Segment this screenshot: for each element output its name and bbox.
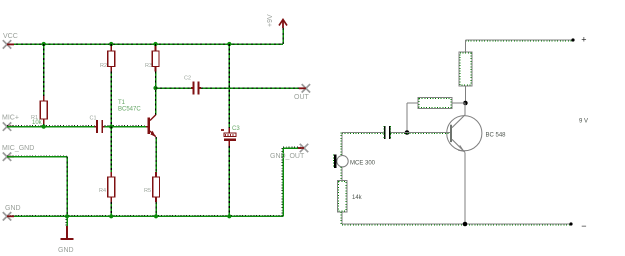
- node MIC+ pin: [2, 115, 19, 131]
- ground symbol: [58, 226, 74, 254]
- capacitor C2: [184, 76, 201, 95]
- wire supply + rail: [465, 40, 573, 41]
- node OUT pin: [294, 84, 310, 101]
- svg-text:C2: C2: [184, 76, 191, 82]
- svg-text:R2: R2: [100, 63, 107, 69]
- wire emitter to R5: [155, 137, 157, 172]
- node GND pin: [3, 205, 21, 221]
- transistor T1 BC547C: [118, 100, 156, 137]
- svg-text:T1: T1: [118, 100, 126, 106]
- supply symbol +9V: [267, 14, 287, 28]
- wire supply riser: [282, 28, 284, 44]
- svg-text:MIC_GND: MIC_GND: [2, 145, 34, 152]
- wire R2 to base node: [110, 72, 112, 127]
- svg-text:C3: C3: [232, 126, 240, 132]
- svg-text:9 V: 9 V: [579, 119, 588, 125]
- junction base node: [405, 130, 410, 135]
- feedback resistor: [407, 98, 465, 109]
- wire 14k to ground rail: [341, 212, 342, 224]
- svg-text:MCE 300: MCE 300: [350, 161, 376, 167]
- svg-text:−: −: [581, 221, 586, 231]
- microphone MCE 300: [334, 155, 376, 168]
- coupling capacitor: [384, 126, 391, 139]
- wire R5 to ground rail: [155, 202, 157, 216]
- junction MIC+ R2 column: [109, 125, 113, 129]
- svg-text:BC547C: BC547C: [118, 107, 141, 113]
- wire C3 to ground rail: [228, 146, 230, 216]
- wire OUT line left: [156, 87, 192, 89]
- svg-text:10k: 10k: [32, 120, 43, 126]
- junction collector node: [463, 101, 468, 106]
- svg-text:GND: GND: [5, 205, 21, 212]
- junction top rail R3 column: [153, 42, 157, 46]
- wire R1 column upper: [43, 44, 45, 96]
- junction MIC+ R1: [42, 125, 46, 129]
- wire OUT line right: [201, 87, 302, 89]
- wire gnd rail riser right: [282, 148, 283, 216]
- wire C3 column upper: [228, 44, 230, 128]
- junction gnd rail R4: [109, 214, 113, 218]
- capacitor C3: [221, 126, 240, 146]
- svg-text:GND: GND: [58, 247, 74, 254]
- svg-text:R5: R5: [144, 188, 151, 194]
- wire ground rail: [7, 215, 283, 216]
- svg-text:+9V: +9V: [267, 14, 274, 27]
- + terminal: [571, 35, 586, 45]
- wire VCC top rail: [7, 43, 283, 45]
- wire GND_OUT line: [283, 147, 301, 148]
- collector resistor: [459, 52, 472, 86]
- svg-text:+: +: [581, 35, 586, 45]
- svg-text:R4: R4: [99, 188, 106, 194]
- wire base node to R4: [110, 127, 112, 172]
- resistor R5: [144, 172, 159, 202]
- svg-text:GND_OUT: GND_OUT: [270, 153, 305, 160]
- node VCC pin: [3, 33, 18, 49]
- - terminal: [569, 221, 586, 231]
- wire MIC+ line left: [7, 126, 95, 127]
- wire collector resistor top lead: [464, 40, 466, 52]
- wire base line left segment: [342, 133, 384, 134]
- wire collector to junction: [464, 103, 466, 115]
- wire feedback to base junction: [406, 103, 408, 133]
- wire mic to 14k resistor: [341, 167, 342, 181]
- svg-text:MIC+: MIC+: [2, 115, 19, 122]
- svg-text:R3: R3: [145, 63, 152, 69]
- wire MIC_GND vertical: [66, 157, 68, 217]
- junction gnd rail C3: [227, 214, 231, 218]
- resistor 14k: [338, 181, 363, 213]
- junction top rail R1 column: [42, 42, 46, 46]
- wire R3 to collector: [155, 72, 157, 115]
- wire R1 to MIC+ line: [43, 124, 45, 127]
- svg-text:C1: C1: [90, 116, 97, 122]
- node GND_OUT pin: [270, 144, 308, 160]
- junction top rail C3 column: [227, 42, 231, 46]
- wire to ground symbol: [66, 216, 67, 226]
- wire collector resistor bottom lead: [464, 86, 466, 103]
- svg-text:VCC: VCC: [3, 33, 18, 40]
- capacitor C1: [90, 116, 105, 134]
- junction gnd rail mic-gnd column: [65, 214, 69, 218]
- wire base corner to mic: [341, 133, 342, 156]
- resistor R1: [31, 96, 47, 124]
- wire C1 to base: [105, 126, 147, 127]
- resistor R2: [100, 46, 115, 72]
- wire MIC_GND horizontal: [7, 156, 67, 157]
- wire R3 column top: [155, 44, 157, 46]
- wire base line mid segment: [391, 133, 407, 134]
- wire R2 column top: [110, 44, 112, 46]
- resistor R4: [99, 172, 115, 202]
- svg-text:14k: 14k: [352, 195, 363, 201]
- wire ground - rail: [342, 224, 571, 225]
- node MIC_GND pin: [2, 145, 34, 161]
- wire R4 to ground rail: [110, 202, 112, 216]
- svg-text:BC 548: BC 548: [486, 133, 507, 139]
- transistor BC 548: [447, 115, 506, 152]
- svg-text:OUT: OUT: [294, 94, 310, 101]
- junction emitter ground rail: [463, 222, 468, 227]
- wire emitter down: [464, 152, 466, 224]
- junction top rail R2 column: [109, 42, 113, 46]
- resistor R3: [145, 46, 159, 72]
- wire base line to transistor: [407, 133, 450, 134]
- junction OUT collector node: [153, 86, 157, 90]
- junction gnd rail R5: [154, 214, 158, 218]
